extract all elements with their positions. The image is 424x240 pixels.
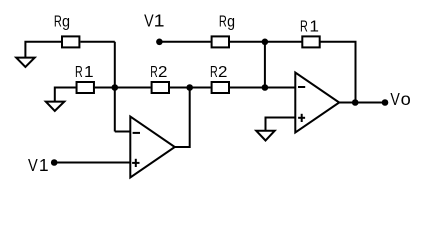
wire R2-2 to op2 minus input	[230, 87, 295, 89]
wire V1 top to Rg2	[159, 41, 210, 43]
terminal V1 (bottom left)	[51, 159, 58, 166]
wire vertical junction down to minus row	[264, 42, 266, 88]
wire ground G2 to resistor R1	[55, 88, 76, 102]
wire R2-1 to R2-2	[170, 87, 211, 89]
resistor Rg (right)	[212, 36, 229, 47]
wire op1 output up to node	[175, 88, 190, 148]
svg-text:V: V	[390, 89, 400, 109]
terminal V1 (top)	[156, 39, 163, 46]
svg-text:R: R	[210, 64, 218, 81]
svg-text:2: 2	[218, 64, 228, 81]
resistor R1 (left)	[77, 82, 94, 93]
wire Rg right to corner	[81, 41, 115, 43]
node junction (264.9, 87.5)	[262, 84, 269, 91]
node junction (264.9, 41.8)	[262, 39, 269, 46]
resistor R2 (first)	[152, 82, 169, 93]
wire to op1 minus input	[115, 131, 131, 133]
op-amp U2 (triangle)	[295, 73, 339, 133]
svg-text:g: g	[62, 13, 70, 30]
svg-text:R: R	[75, 64, 83, 81]
resistor Rg (left)	[62, 36, 79, 47]
node junction output/feedback (355.5, 102.5)	[352, 99, 359, 106]
ground G3 (below op2 plus input)	[256, 131, 275, 141]
svg-text:R: R	[54, 13, 62, 30]
wire vertical x=114.8 down to op1 minus input	[114, 42, 116, 132]
svg-text:V: V	[144, 11, 154, 31]
op-amp U2 minus sign	[298, 86, 305, 88]
svg-text:1: 1	[154, 11, 165, 31]
svg-text:1: 1	[84, 64, 94, 81]
node junction (189.7, 87.5)	[186, 84, 193, 91]
wire Rg2 to R1 top-right	[230, 41, 302, 43]
op-amp U1 minus sign	[133, 132, 140, 134]
svg-text:R: R	[219, 13, 227, 30]
svg-text:2: 2	[158, 64, 168, 81]
svg-text:1: 1	[39, 155, 49, 175]
svg-text:R: R	[300, 19, 308, 36]
terminal Vo	[382, 99, 389, 106]
ground G2 (left of R1)	[46, 102, 65, 111]
svg-text:g: g	[227, 13, 235, 30]
wire ground G3 to op2 plus input	[266, 118, 296, 131]
resistor R1 (top right, feedback)	[302, 36, 319, 47]
op-amp U2 plus sign	[298, 114, 305, 122]
resistor R2 (second)	[212, 82, 229, 93]
wire ground G1 to resistor Rg	[25, 42, 61, 58]
svg-text:R: R	[150, 64, 157, 81]
svg-text:V: V	[28, 155, 38, 175]
wire V1 to op1 plus input	[54, 162, 130, 164]
svg-text:1: 1	[309, 19, 319, 36]
ground G1 (top left)	[16, 58, 35, 67]
op-amp U1 plus sign	[132, 159, 139, 167]
op-amp U1 (triangle)	[130, 117, 175, 178]
wire op2 output to Vo terminal	[339, 102, 385, 104]
wire R1 to R2	[95, 87, 151, 89]
svg-text:o: o	[401, 89, 411, 109]
wire R1 feedback down to output node	[321, 42, 356, 103]
node junction (114.8, 87.5)	[112, 84, 119, 91]
